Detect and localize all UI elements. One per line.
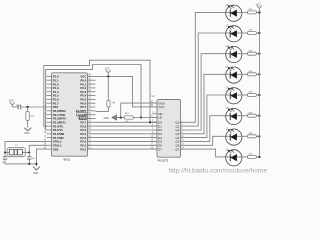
svg-text:P1.0: P1.0 [53, 75, 59, 79]
wire P3.4 net to latch D0 column (upper control wire) [44, 60, 157, 126]
pin 1 P1.0 (left stub) [47, 75, 52, 77]
svg-text:D7: D7 [158, 147, 162, 151]
ALE/PROG boxed label [77, 113, 87, 116]
pin 16 P3.6/WR (left stub) [47, 133, 52, 135]
svg-text:P1.1: P1.1 [53, 78, 59, 82]
resistor R5 [241, 73, 247, 75]
latch pin 1 OE [153, 113, 158, 115]
ground (reset) [24, 128, 31, 131]
pin 9 RST (left stub) [47, 106, 52, 108]
svg-text:P1.3: P1.3 [53, 86, 59, 90]
latch pin 17 D6 [153, 144, 158, 146]
resistor R10 [124, 116, 133, 119]
latch pin 5 Q1 [181, 125, 186, 127]
svg-text:30p: 30p [32, 158, 35, 160]
svg-text:D0: D0 [158, 121, 162, 125]
resistor R6 [241, 53, 247, 55]
svg-text:8031: 8031 [64, 158, 71, 162]
node rail junction row 7 [258, 32, 260, 34]
svg-text:P0.6: P0.6 [80, 101, 86, 105]
svg-text:P1.4: P1.4 [53, 90, 59, 94]
wire Q5 to LED L3 [186, 116, 226, 142]
latch pin 9 Q3 [181, 133, 186, 135]
svg-text:XTAL2: XTAL2 [53, 140, 62, 144]
svg-text:Q4: Q4 [175, 136, 179, 140]
svg-text:LE: LE [158, 116, 162, 120]
wire VCC to capacitor C1 [12, 106, 18, 108]
svg-text:D6: D6 [158, 144, 162, 148]
node junction on D0 wire [149, 121, 151, 123]
svg-text:P2.4: P2.4 [80, 132, 86, 136]
capacitor C3 [28, 153, 30, 157]
svg-text:EA/VPP: EA/VPP [76, 109, 87, 113]
svg-text:P2.3: P2.3 [80, 136, 86, 140]
svg-text:P2.7: P2.7 [80, 121, 86, 125]
svg-text:D2: D2 [158, 128, 162, 132]
latch pin 10 GND [153, 102, 158, 104]
IC U1 8031 MCU body [52, 73, 88, 156]
wire VSS to rail [36, 149, 46, 166]
latch pin 3 D0 [153, 121, 158, 123]
pin 29 PSEN (right stub) [88, 118, 96, 120]
wire P3.5 net to LE row (lower control wire) [46, 65, 141, 131]
wire VCC pin40 to latch VCC [96, 76, 158, 107]
wire P2.2 to D5 [88, 140, 158, 142]
svg-text:P3.7/RD: P3.7/RD [53, 136, 64, 140]
svg-text:Q0: Q0 [175, 121, 179, 125]
svg-text:P3.5/T1: P3.5/T1 [53, 128, 64, 132]
svg-text:D3: D3 [158, 132, 162, 136]
pin 32 P0.7 (right stub) [88, 106, 96, 108]
pin 31 EA/VPP (right stub) [88, 110, 96, 112]
svg-text:P3.2/INT0: P3.2/INT0 [53, 117, 66, 121]
svg-text:P1.6: P1.6 [53, 98, 59, 102]
pin 5 P1.4 (left stub) [47, 91, 52, 93]
LED L3 [226, 115, 242, 117]
node crystal right junction [28, 152, 30, 154]
pin 33 P0.6 (right stub) [88, 102, 96, 104]
PSEN boxed label [79, 117, 86, 120]
pin 3 P1.2 (left stub) [47, 83, 52, 85]
pin 15 P3.5/T1 (left stub) [47, 129, 52, 131]
svg-text:VCC: VCC [80, 75, 87, 79]
resistor R1 [241, 156, 247, 158]
wire Q0 to LED L8 [186, 12, 226, 122]
node rail junction row 5 [258, 73, 260, 75]
node junction on LE row [140, 116, 142, 118]
wire P2.0 to D7 [88, 148, 158, 150]
svg-text:D4: D4 [158, 136, 162, 140]
pin 6 P1.5 (left stub) [47, 95, 52, 97]
pin 7 P1.6 (left stub) [47, 98, 52, 100]
resistor R9 EA pull-up [107, 76, 109, 100]
wire P2.3 to D4 [88, 137, 158, 139]
capacitor C2 [4, 153, 6, 157]
pin 2 P1.1 (left stub) [47, 79, 52, 81]
svg-text:XTAL1: XTAL1 [53, 144, 62, 148]
pin 17 P3.7/RD (left stub) [47, 137, 52, 139]
svg-text:Q6: Q6 [175, 144, 179, 148]
wire GND terminal to R10 [117, 117, 125, 119]
svg-text:P0.1: P0.1 [80, 82, 86, 86]
wire R10 to latch LE [133, 117, 157, 119]
latch pin 19 Q7 [181, 148, 186, 150]
LED L4 [226, 94, 242, 96]
resistor R4 [241, 94, 247, 96]
svg-text:Q5: Q5 [175, 140, 179, 144]
LED L7 [226, 32, 242, 34]
svg-text:Q1: Q1 [175, 124, 179, 128]
LED L5 [226, 73, 242, 75]
pin 13 P3.3/INT1 (left stub) [47, 121, 52, 123]
svg-text:P2.5: P2.5 [80, 128, 86, 132]
svg-text:VCC: VCC [105, 69, 110, 71]
IC U2 74LS373 latch body [157, 100, 181, 158]
svg-text:P1.2: P1.2 [53, 82, 59, 86]
svg-text:P0.0: P0.0 [80, 78, 86, 82]
svg-text:Q3: Q3 [175, 132, 179, 136]
svg-text:RST: RST [53, 105, 59, 109]
svg-text:P0.7: P0.7 [80, 105, 86, 109]
svg-text:P0.3: P0.3 [80, 90, 86, 94]
svg-text:P2.0: P2.0 [80, 147, 86, 151]
latch pin 15 Q5 [181, 140, 186, 142]
LED L2 [226, 135, 242, 137]
node VCC junction [107, 75, 109, 77]
wire P2.7 to D0 [88, 121, 158, 123]
pin 36 P0.3 (right stub) [88, 91, 96, 93]
svg-text:P1.7: P1.7 [53, 101, 59, 105]
latch pin 20 VCC [153, 106, 158, 108]
pin 40 VCC (right stub) [88, 75, 96, 77]
latch pin 16 Q6 [181, 144, 186, 146]
wire C1 to RST pin [21, 106, 47, 108]
pin 12 P3.2/INT0 (left stub) [47, 118, 52, 120]
svg-text:GND: GND [158, 101, 166, 105]
svg-text:OE: OE [158, 112, 162, 116]
pin 4 P1.3 (left stub) [47, 87, 52, 89]
svg-text:Q7: Q7 [175, 147, 179, 151]
pin 18 XTAL2 (left stub) [47, 140, 52, 142]
svg-text:VCC: VCC [256, 4, 261, 6]
pin 30 ALE/P (right stub) [88, 114, 96, 116]
latch pin 2 Q0 [181, 121, 186, 123]
svg-text:P1.5: P1.5 [53, 94, 59, 98]
pin 38 P0.1 (right stub) [88, 83, 96, 85]
svg-text:P0.2: P0.2 [80, 86, 86, 90]
svg-text:VCC: VCC [158, 105, 165, 109]
svg-text:30p: 30p [2, 162, 5, 164]
power VCC terminal (above pin 40) [106, 70, 111, 76]
wire Q7 to LED L1 [186, 149, 226, 157]
latch pin 8 D3 [153, 133, 158, 135]
wire Q3 to LED L5 [186, 74, 226, 134]
resistor R7 [241, 32, 247, 34]
svg-text:Q2: Q2 [175, 128, 179, 132]
wire P2.4 to D3 [88, 133, 158, 135]
latch pin 4 D1 [153, 125, 158, 127]
pin 34 P0.5 (right stub) [88, 98, 96, 100]
latch pin 12 Q4 [181, 137, 186, 139]
wire XTAL2 loop [5, 141, 47, 152]
pin 20 VSS (left stub) [47, 148, 52, 150]
svg-text:GND: GND [24, 133, 29, 135]
wire XTAL1 loop [29, 145, 46, 152]
latch pin 7 D2 [153, 129, 158, 131]
pin 39 P0.0 (right stub) [88, 79, 96, 81]
svg-text:D5: D5 [158, 140, 162, 144]
svg-text:VCC: VCC [9, 100, 14, 102]
resistor R1 (reset pull-down) [27, 107, 29, 112]
svg-text:P2.2: P2.2 [80, 140, 86, 144]
latch pin 6 Q2 [181, 129, 186, 131]
latch pin 13 D4 [153, 137, 158, 139]
pin 37 P0.2 (right stub) [88, 87, 96, 89]
pin 10 P3.0/RXD (left stub) [47, 110, 52, 112]
resistor R2 [241, 135, 247, 137]
svg-text:P2.6: P2.6 [80, 124, 86, 128]
svg-text:GND: GND [33, 173, 38, 175]
node rail junction row 2 [258, 135, 260, 137]
ground (crystal) [33, 167, 40, 170]
wire latch GND pin down to GND row [121, 103, 157, 117]
wire P2.1 to D6 [88, 144, 158, 146]
wire P2.6 to D1 [88, 125, 158, 127]
wire ground rail [5, 163, 36, 165]
svg-text:P3.1/TXD: P3.1/TXD [53, 113, 66, 117]
pin 35 P0.4 (right stub) [88, 95, 96, 97]
wire Q1 to LED L7 [186, 33, 226, 126]
node crystal left junction [4, 152, 6, 154]
latch pin 14 D5 [153, 140, 158, 142]
node rail junction row 3 [258, 115, 260, 117]
svg-text:P0.4: P0.4 [80, 94, 86, 98]
capacitor C1 [17, 105, 19, 110]
svg-text:P3.6/WR: P3.6/WR [53, 132, 65, 136]
latch pin 18 D7 [153, 148, 158, 150]
pin 19 XTAL1 (left stub) [47, 144, 52, 146]
svg-text:GND: GND [104, 118, 109, 120]
svg-text:P3.3/INT1: P3.3/INT1 [53, 121, 66, 125]
svg-text:74LS373: 74LS373 [157, 159, 169, 163]
resistor R3 [241, 115, 247, 117]
pin 8 P1.7 (left stub) [47, 102, 52, 104]
pin 11 P3.1/TXD (left stub) [47, 114, 52, 116]
node rail junction row 1 [258, 156, 260, 158]
power VCC terminal (LED rail) [257, 6, 262, 13]
svg-text:D1: D1 [158, 124, 162, 128]
wire R1 to ground [27, 121, 29, 128]
wire Q6 to LED L2 [186, 136, 226, 145]
wire P2.5 to D2 [88, 129, 158, 131]
latch pin 11 LE [153, 117, 158, 119]
svg-text:P3.0/RXD: P3.0/RXD [53, 109, 66, 113]
svg-text:10uF: 10uF [16, 105, 21, 107]
svg-text:P3.4/T0: P3.4/T0 [53, 124, 64, 128]
svg-text:http://hi.baidu.com/mculove/ho: http://hi.baidu.com/mculove/home [169, 167, 268, 174]
resistor R8 [241, 11, 247, 13]
LED L6 [226, 53, 242, 55]
wire Q2 to LED L6 [186, 54, 226, 130]
svg-text:P2.1: P2.1 [80, 144, 86, 148]
node rail junction row 4 [258, 94, 260, 96]
node rail junction row 6 [258, 53, 260, 55]
svg-text:P0.5: P0.5 [80, 98, 86, 102]
LED L1 [226, 156, 242, 158]
wire VCC rail (right) [258, 12, 260, 157]
svg-text:VSS: VSS [53, 147, 59, 151]
pin 14 P3.4/T0 (left stub) [47, 125, 52, 127]
wire Q4 to LED L4 [186, 95, 226, 138]
LED L8 [226, 11, 242, 13]
